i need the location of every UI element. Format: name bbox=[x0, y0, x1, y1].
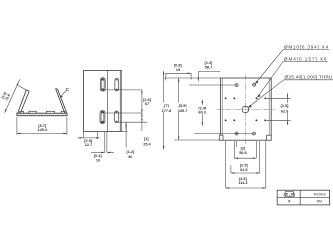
extension stub x191.1 bbox=[190, 73, 192, 79]
plate outline bbox=[220, 78, 271, 140]
svg-text:25.4: 25.4 bbox=[143, 142, 151, 146]
middle view bottom edge extension right bbox=[121, 131, 127, 133]
svg-text:139.7: 139.7 bbox=[178, 109, 188, 113]
svg-text:62.9: 62.9 bbox=[240, 168, 247, 172]
text 62.9 right bbox=[280, 108, 289, 113]
svg-text:INCHES: INCHES bbox=[314, 192, 326, 196]
svg-text:[1.2]: [1.2] bbox=[126, 150, 135, 154]
plate vertical centerline bbox=[244, 75, 246, 145]
svg-text:[2.3]: [2.3] bbox=[204, 61, 213, 65]
slot row2 col1 bottom cap bbox=[101, 121, 104, 123]
text [5.5] bbox=[178, 103, 187, 108]
right wing outer edge bbox=[58, 89, 67, 113]
M4 row extension right y120.3 bbox=[266, 119, 290, 121]
dimension [7] 177.8 line bbox=[163, 71, 165, 150]
dimension [2.5] 62.9 right line bbox=[287, 93, 289, 125]
dimension [5.7] 145.4 line bbox=[17, 132, 67, 134]
bottom extension x259.7 bbox=[259, 141, 261, 173]
bottom extension x230.9 bbox=[230, 165, 232, 173]
label C leader bbox=[60, 91, 66, 97]
slot row1 col1 top cap bbox=[101, 78, 104, 80]
svg-text:50.8: 50.8 bbox=[239, 151, 246, 155]
left view tab 3 bbox=[46, 111, 54, 113]
extension line slot row2 top bbox=[104, 112, 142, 114]
slot row2 col1 inner bbox=[101, 112, 104, 122]
dimension [0.4] 10 line right part bbox=[107, 151, 114, 153]
left wing inner edge bbox=[20, 91, 29, 113]
table outline bbox=[277, 190, 329, 205]
svg-text:114.3: 114.3 bbox=[238, 181, 247, 185]
svg-text:60.3: 60.3 bbox=[198, 111, 205, 115]
callout M10 arrowhead bbox=[255, 81, 259, 84]
slot row2 col2 top cap bbox=[115, 112, 117, 114]
svg-text:[0.4]: [0.4] bbox=[94, 154, 103, 158]
plate top edge extension to left bbox=[164, 77, 221, 79]
text [2.5] right bbox=[280, 103, 289, 108]
table vertical divider bbox=[299, 190, 301, 205]
svg-text:145.4: 145.4 bbox=[38, 128, 48, 132]
bottom extension x97.3 bbox=[96, 132, 98, 139]
bottom extension x265.8 bbox=[265, 141, 267, 188]
svg-text:X: X bbox=[288, 200, 291, 204]
middle view right inner edge bbox=[119, 70, 121, 131]
plate bottom-right corner tab bbox=[267, 135, 272, 140]
dimension [2.3] 58.7 horizontal bbox=[198, 70, 220, 72]
slot row1 col1 outer bbox=[100, 78, 105, 92]
center hole bbox=[242, 106, 249, 113]
slot row1 col2 bbox=[115, 78, 119, 91]
dimension [0.8] 19 line bbox=[166, 72, 191, 74]
left view tab 4 bbox=[61, 111, 65, 113]
svg-text:[2.5]: [2.5] bbox=[281, 104, 290, 108]
callout THRU underline bbox=[284, 79, 333, 81]
dimension [2.3] 58.7 vertical with arrow bbox=[197, 71, 199, 81]
svg-text:[1]: [1] bbox=[144, 137, 149, 141]
dimension [1] tail bbox=[141, 122, 143, 131]
text [2.4] bbox=[198, 105, 207, 110]
callout M10 underline bbox=[283, 48, 329, 50]
M10 bottom row leader bbox=[194, 133, 252, 135]
extension line y122.3 bbox=[117, 121, 148, 123]
slot row1 col2 bottom cap bbox=[116, 89, 118, 91]
svg-text:ØM4[0.157] X8: ØM4[0.157] X8 bbox=[284, 56, 327, 61]
dimension [2.4] 60.3 line bbox=[201, 100, 203, 126]
text 60.3 bbox=[197, 110, 207, 115]
slot row1 col1 bottom cap bbox=[101, 88, 104, 90]
left wing extension line bbox=[18, 86, 26, 90]
dimension [2.5] 62.9 bottom line bbox=[231, 172, 260, 174]
left view tab 2 bbox=[29, 111, 36, 113]
svg-text:12.7: 12.7 bbox=[85, 143, 92, 147]
bottom extension x225.6 bbox=[225, 141, 227, 188]
slot row2 col2 bottom cap bbox=[115, 121, 117, 123]
dimension [0.5] 12.7 line bbox=[78, 137, 100, 139]
callout THRU leader bbox=[248, 80, 283, 108]
dimension [2.6] 67 line bbox=[141, 90, 143, 113]
svg-text:177.8: 177.8 bbox=[162, 109, 172, 113]
bottom extension x104.8 bbox=[104, 132, 106, 153]
M10 top row leader bbox=[189, 84, 235, 86]
callout M10 leader bbox=[255, 49, 283, 83]
right wing end cap bbox=[56, 88, 58, 91]
M10 hole bottom-right bbox=[252, 131, 256, 135]
middle view bend line bbox=[107, 70, 109, 131]
text 177.8 bbox=[161, 108, 172, 113]
dimension [1.2] 30 line bbox=[125, 122, 127, 147]
plate bottom edge extension to left bbox=[174, 139, 220, 141]
svg-text:MM: MM bbox=[317, 199, 323, 203]
table middle horizontal bbox=[277, 197, 329, 199]
plate left inner edge bbox=[221, 78, 223, 140]
M10 hole bottom-left bbox=[234, 131, 238, 135]
slot row2 col1 outer bbox=[100, 110, 105, 123]
callout M4 underline bbox=[283, 60, 328, 62]
svg-text:[7]: [7] bbox=[164, 104, 169, 108]
M4 holes (8 filled dots) bbox=[225, 97, 267, 121]
dimension [1] 25.4 line bbox=[141, 113, 143, 122]
callout THRU arrowhead bbox=[248, 105, 252, 108]
callout M4 leader bbox=[258, 61, 284, 97]
extension line slot row1 to dim 67 bbox=[104, 89, 142, 91]
bottom extension x83.4 bbox=[82, 132, 84, 139]
wing length dimension line (rotated) bbox=[5, 82, 19, 113]
dimension [0.4] 10 line left part bbox=[91, 151, 105, 153]
dimension [5.7] 145.4 extension left bbox=[16, 117, 18, 135]
dimension [2] 50.8 line bbox=[234, 157, 256, 159]
svg-text:19: 19 bbox=[176, 68, 180, 72]
svg-text:10: 10 bbox=[96, 159, 100, 163]
slot row1 col1 inner bbox=[101, 79, 104, 89]
rotated wing dim text [2.9] 75.8 bbox=[1, 91, 12, 101]
label C arrowhead bbox=[60, 95, 63, 98]
plate bottom-left corner tab bbox=[219, 135, 223, 140]
svg-text:[2]: [2] bbox=[241, 147, 246, 151]
M10 hole top-right bbox=[252, 83, 256, 87]
slot row2 col1 top cap bbox=[101, 111, 104, 113]
left wing end cap bbox=[26, 89, 29, 92]
svg-text:30: 30 bbox=[128, 155, 132, 159]
left view base bar bbox=[17, 113, 67, 116]
text 139.7 bbox=[177, 108, 188, 113]
text [7] (white bg) bbox=[162, 103, 171, 108]
left view tab 1 bbox=[20, 111, 24, 113]
right wing inner edge bbox=[56, 89, 65, 114]
plate right inner edge bbox=[268, 78, 270, 140]
plate horizontal centerline bbox=[217, 109, 275, 111]
extension tick x165.8 bbox=[165, 73, 167, 80]
bottom extension x236.6 stub bbox=[236, 141, 238, 147]
svg-text:62.9: 62.9 bbox=[281, 109, 288, 113]
slot row2 col2 bbox=[115, 111, 119, 123]
bottom extension x234.3 bbox=[233, 141, 235, 158]
svg-text:67: 67 bbox=[145, 102, 149, 106]
dimension [5.5] 139.7 line bbox=[178, 78, 180, 140]
svg-text:58.7: 58.7 bbox=[205, 65, 212, 69]
svg-text:ØM10[0.394] X4: ØM10[0.394] X4 bbox=[284, 44, 329, 49]
table X.X box bbox=[285, 192, 293, 197]
callout M4 arrowhead bbox=[257, 94, 261, 97]
dimension [4.5] 114.3 line bbox=[226, 187, 266, 189]
dimension [1.2] arrow at 131.5 bbox=[126, 126, 127, 131]
M4 row extension right y98.3 bbox=[267, 97, 291, 99]
middle view outline bbox=[84, 70, 122, 131]
svg-text:Ø25.40[1.000] THRU: Ø25.40[1.000] THRU bbox=[285, 75, 333, 80]
svg-text:[X,X]: [X,X] bbox=[284, 192, 296, 197]
svg-text:[5.5]: [5.5] bbox=[179, 104, 188, 108]
bottom extension x256.3 bbox=[255, 141, 257, 158]
M10 hole top-left bbox=[234, 83, 238, 87]
dimension [5.7] 145.4 extension right bbox=[66, 117, 68, 135]
left wing outer edge bbox=[18, 90, 27, 113]
bottom extension x106.9 bbox=[106, 132, 108, 153]
slot row1 col2 top cap bbox=[116, 79, 118, 81]
